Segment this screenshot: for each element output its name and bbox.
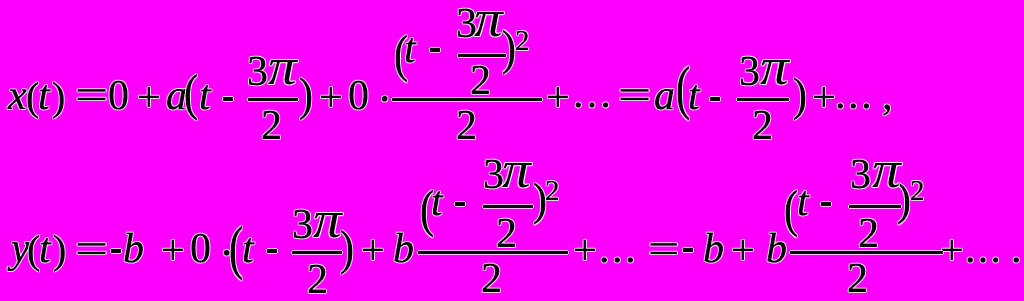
italic t in a(t-...) second [688, 75, 700, 117]
superscript 2 exponent of F5 [545, 170, 560, 212]
plus sign 3 line2 [573, 230, 597, 272]
ellipsis 2 line1 [835, 74, 874, 116]
open paren of F2 numerator [394, 29, 408, 81]
coefficient 0 line1 [348, 75, 369, 117]
numerator 3pi of F4 [292, 204, 339, 246]
equals sign 1 line1 [75, 75, 99, 117]
denominator 2 of fraction F4 [307, 259, 328, 301]
equals sign 1 line2 [75, 229, 99, 271]
numerator 3pi inside F5 [483, 154, 528, 196]
multiplication dot line1 [377, 78, 392, 120]
stretched open paren a(t-3pi/2) second line1 [676, 60, 690, 119]
stretched close paren a(t-3pi/2) second line1 [793, 72, 807, 119]
coefficient b before F6 [766, 228, 787, 270]
denominator 2 of big fraction F5 [481, 258, 502, 300]
denominator 2 of big fraction F6 [847, 258, 868, 300]
inner fraction bar in F2 [458, 54, 506, 57]
close paren of F5 numerator [533, 178, 547, 223]
italic t in F5 numerator [431, 181, 443, 223]
ellipsis 1 line1 [573, 73, 614, 115]
italic t in (t-...) line2 [242, 228, 254, 270]
ellipsis 1 line2 [599, 228, 638, 270]
plus sign 2 line1 [319, 77, 343, 119]
minus sign after equals line2 [683, 248, 693, 252]
plus sign 5 line2 [940, 230, 964, 272]
plus sign 1 line1 [137, 77, 161, 119]
stretched close paren (t-3pi/2) line2 [340, 225, 354, 273]
close paren of x(t) [52, 76, 65, 118]
fraction bar F4 [292, 251, 342, 254]
term 0 line1 [108, 75, 129, 117]
italic t in F6 numerator [797, 181, 809, 223]
trailing period line2 [1011, 228, 1022, 270]
italic t of y(t) [39, 228, 51, 270]
open paren of y(t) [27, 229, 40, 271]
numerator 3pi of F1 [247, 51, 294, 93]
coefficient b before F5 [393, 228, 414, 270]
stretched open paren (t-3pi/2) line2 [229, 220, 243, 279]
superscript 2 exponent of F2 [515, 20, 530, 62]
italic x of x(t) [8, 75, 27, 117]
denominator 2 of big fraction F2 [456, 105, 477, 147]
term b line2 [123, 228, 144, 270]
italic t in a(t-...) [199, 75, 211, 117]
equals sign 2 line2 [648, 229, 672, 271]
coefficient a second [654, 75, 675, 117]
ellipsis 2 line2 [965, 228, 1003, 270]
plus sign 4 line2 [731, 230, 755, 272]
italic t in F2 numerator [404, 28, 416, 70]
inner denominator 2 in F5 numerator [496, 213, 517, 255]
trailing comma line1 [882, 75, 893, 117]
plus sign 3 line1 [546, 77, 570, 119]
inner fraction bar in F6 [849, 205, 901, 208]
fraction bar F3 [737, 98, 789, 101]
italic y of y(t) [11, 228, 30, 270]
plus sign 1 line2 [161, 230, 185, 272]
plus sign 2 line2 [361, 230, 385, 272]
stretched open paren a(t-3pi/2) line1 [184, 68, 198, 119]
close paren of y(t) [53, 229, 66, 271]
numerator 3pi of F3 [739, 51, 786, 93]
minus sign in a(t-...) second line1 [710, 97, 720, 101]
close paren of F2 numerator [502, 24, 516, 73]
minus sign in F5 numerator [455, 202, 465, 206]
minus sign in (t-...) line2 [267, 249, 277, 253]
denominator 2 of fraction F3 [752, 105, 773, 147]
fraction bar F1 [248, 98, 299, 101]
multiplication dot line2 [219, 232, 234, 274]
fraction bar F2 (big) [392, 98, 542, 101]
fraction bar F6 (big) [790, 251, 943, 254]
fraction bar F5 (big) [418, 251, 568, 254]
term b after equals line2 [703, 228, 724, 270]
numerator 3pi inside F6 [850, 154, 898, 196]
superscript 2 exponent of F6 [910, 170, 925, 212]
plus sign 4 line1 [812, 77, 836, 119]
open paren of x(t) [26, 76, 39, 118]
minus sign in a(t-...) line1 [223, 97, 233, 101]
minus sign before b line2 [111, 249, 121, 253]
inner denominator 2 in F6 numerator [858, 213, 879, 255]
close paren of F6 numerator [897, 178, 911, 223]
inner fraction bar in F5 [483, 205, 533, 208]
italic t of x(t) [38, 75, 50, 117]
equals sign 2 line1 [618, 75, 642, 117]
coefficient 0 line2 [190, 228, 211, 270]
minus sign in F6 numerator [821, 202, 831, 206]
numerator 3pi inside F2 [456, 3, 500, 45]
stretched close paren a(t-3pi/2) line1 [299, 72, 313, 119]
inner denominator 2 in F2 numerator [470, 60, 491, 102]
open paren of F5 numerator [420, 184, 434, 236]
open paren of F6 numerator [784, 184, 798, 236]
coefficient a [166, 75, 187, 117]
denominator 2 of fraction F1 [261, 105, 282, 147]
minus sign in F2 numerator [430, 48, 440, 52]
